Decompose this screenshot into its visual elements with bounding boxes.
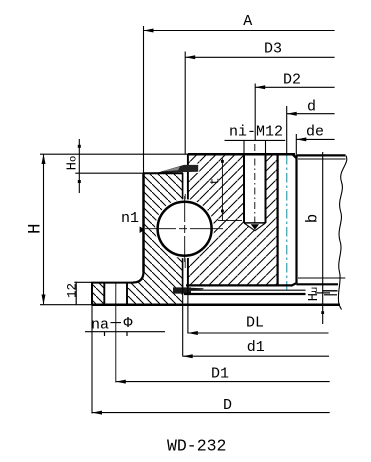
- gear strip left edge (root): [295, 155, 297, 284]
- gear strip top face: [296, 154, 346, 156]
- dimension d line: [287, 113, 335, 115]
- dimension t line: [221, 159, 223, 221]
- ni-M12 extensions to hole edges: [243, 140, 245, 154]
- DL extension: [187, 288, 189, 334]
- dimension DL line: [188, 332, 329, 334]
- raceway gap strip (cutout): [183, 164, 187, 288]
- ball horizontal centerline: [145, 228, 225, 230]
- svg-text:D3: D3: [264, 41, 282, 58]
- left ring outer wall: [143, 26, 145, 173]
- right ring (geared) hatched section: [188, 154, 278, 285]
- D3 extension: [184, 52, 186, 155]
- dimension H line: [43, 154, 45, 305]
- break line hook: [339, 305, 342, 310]
- top face extension line (left, to H/Ho dims): [40, 153, 144, 155]
- right ring outer edge: [277, 154, 279, 286]
- dimension na-Phi line: [85, 331, 165, 333]
- bottom chamfer wedge: [291, 283, 297, 286]
- flange top face: [74, 281, 92, 283]
- de extension: [295, 134, 297, 154]
- svg-text:A: A: [243, 13, 252, 30]
- svg-text:ni-M12: ni-M12: [229, 123, 283, 140]
- dimension Ho line: [78, 139, 80, 193]
- svg-text:Φ: Φ: [123, 315, 132, 332]
- bottom seal (wiper): [173, 287, 204, 293]
- ball (rolling element): [155, 199, 214, 258]
- svg-text:D: D: [223, 397, 232, 414]
- flange hole left edge: [103, 283, 105, 305]
- right ring bottom face: [186, 284, 292, 286]
- left ring (inner, flanged) hatched section: [92, 173, 183, 305]
- gear strip bottom chamfer line: [298, 277, 345, 279]
- seam centerline through ball: [184, 194, 186, 268]
- gap line left (left ring outer edge): [182, 173, 184, 288]
- svg-text:H: H: [26, 224, 46, 235]
- svg-text:na: na: [91, 317, 109, 334]
- tapped hole M12 (cutout): [244, 152, 266, 230]
- M12 tapped hole left edge: [243, 154, 245, 223]
- M12 tapped hole right edge: [265, 154, 267, 223]
- flange hole right edge: [126, 283, 128, 305]
- D2 extension: [254, 84, 256, 142]
- svg-text:D2: D2: [283, 71, 301, 88]
- dimension D2 line: [255, 86, 334, 88]
- svg-text:12: 12: [66, 283, 80, 298]
- svg-text:DL: DL: [246, 315, 264, 332]
- dimension D line: [92, 412, 330, 414]
- flange hole centerline: [115, 283, 117, 383]
- Ho extension line: [75, 172, 143, 174]
- dimension d1 line: [183, 355, 329, 357]
- ball vertical centerline: [184, 196, 186, 262]
- flange outer wall: [91, 283, 93, 305]
- top face of right ring: [144, 153, 188, 155]
- dimension de line: [296, 138, 334, 140]
- top face of left ring: [144, 172, 184, 174]
- wavy break line: [338, 156, 346, 305]
- seal retainer thin line: [191, 289, 306, 291]
- seal groove notch (cutout): [187, 164, 200, 174]
- dimension A line: [144, 30, 335, 32]
- M12 hole centerline: [254, 144, 256, 230]
- ni-M12 leader line: [225, 139, 286, 141]
- svg-text:WD-232: WD-232: [167, 437, 226, 456]
- svg-text:Ho: Ho: [65, 156, 81, 171]
- svg-text:b: b: [304, 214, 322, 223]
- M12 hole bottom: [244, 222, 266, 224]
- dimension 12 line: [75, 282, 77, 305]
- top chamfer wedge: [293, 154, 297, 158]
- svg-text:n1: n1: [121, 210, 139, 227]
- M12 drill cone: [244, 223, 266, 231]
- svg-text:de: de: [306, 124, 324, 141]
- svg-text:D1: D1: [211, 366, 229, 383]
- flange bolt hole (cutout): [104, 281, 127, 306]
- svg-text:d1: d1: [247, 339, 265, 356]
- gap line right (right ring bore edge): [187, 154, 189, 288]
- bottom face (global): [40, 304, 92, 306]
- dimension D3 line: [185, 56, 334, 58]
- svg-text:d: d: [307, 99, 316, 116]
- svg-text:t: t: [208, 178, 222, 186]
- retainer lower thick line: [184, 293, 306, 295]
- D extension: [91, 305, 93, 414]
- d extension: [286, 106, 288, 154]
- gear pitch centerline (cyan): [286, 155, 288, 292]
- svg-text:Hu: Hu: [306, 287, 322, 302]
- n1 pointer arrow: [140, 226, 145, 233]
- top seal (wiper): [157, 165, 198, 173]
- dimension Hu line: [322, 152, 324, 324]
- fillet flange/wall: [133, 272, 144, 283]
- d1 extension: [182, 288, 184, 357]
- gear strip bottom face: [296, 283, 338, 285]
- dimension D1 line: [116, 381, 330, 383]
- gear strip top chamfer line: [298, 158, 346, 160]
